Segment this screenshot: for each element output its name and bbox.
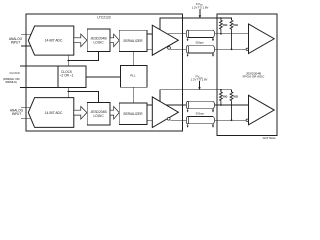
junction dot R1 signal1 [220,33,222,35]
wire serializer to driver - (bottom) [147,119,152,121]
wire driver - output to FPGA (bottom lane signal 4) [170,119,248,121]
box JESD204B LOGIC (top) [87,29,110,51]
resistor R4 50 ohm (bottom lane) [230,92,233,120]
resistor R1 50 ohm (top lane) [220,18,223,34]
svg-text:1.2V TO 1.8V: 1.2V TO 1.8V [191,78,208,82]
receiver RX1 (top triangle in FPGA) [249,24,275,54]
wire clock + [20,65,58,67]
box SERIALIZER (bottom) [119,103,147,124]
svg-text:SERIALIZER: SERIALIZER [123,39,143,43]
svg-text:LOGIC: LOGIC [93,40,104,44]
junction dot rail R1 [220,17,222,19]
block arrow logic to serializer (bottom) [110,106,119,119]
svg-text:PLL: PLL [130,74,136,78]
box PLL [121,65,148,87]
wire driver tap to termination rail (top) [160,18,232,30]
wire PLL to serializer2 [133,87,135,103]
CML driver A (top triangle) [152,25,178,55]
svg-text:÷2 OR ÷1: ÷2 OR ÷1 [60,73,74,77]
block arrow logic to serializer (top) [110,34,119,47]
box SERIALIZER (top) [119,30,147,51]
wire analog input - (top) [21,45,31,47]
svg-text:CLOCK: CLOCK [10,71,20,75]
svg-text:50Ω: 50Ω [233,96,238,99]
junction dot rail R3 [220,89,222,91]
junction dot clock net top [67,60,69,62]
svg-text:50Ω: 50Ω [223,96,228,99]
wire clock net to top ADC and logic [67,55,69,66]
svg-text:50Ω: 50Ω [223,24,228,27]
svg-text:LTC2123: LTC2123 [97,15,110,19]
resistor R3 50 ohm (bottom lane) [220,90,223,105]
svg-text:3Gbps: 3Gbps [195,41,204,45]
svg-text:1.2V TO 1.8V: 1.2V TO 1.8V [192,5,209,9]
wire driver tap to termination rail (bottom) [160,90,232,102]
junction dot R3 signal3 [220,104,222,106]
transmission line TL3 (bottom lane upper) [186,101,214,112]
wire driver + output to FPGA (top lane signal 1) [167,33,248,35]
wire clock to PLL [86,76,121,78]
wire serializer1 to PLL [133,52,135,66]
svg-text:500MHz): 500MHz) [5,80,17,84]
supply arrow FVDD (top) [199,9,201,16]
wire clock net to bottom ADC and logic [67,87,69,97]
ADC A1 14-BIT ADC (top) [28,26,74,55]
FPGA box JESD204B FPGA OR ASIC [217,14,277,135]
receiver RX2 (bottom triangle in FPGA) [249,95,275,125]
junction dot R4 signal4 [231,119,233,121]
junction dot R2 signal2 [231,48,233,50]
supply arrow FVDD (bottom) [199,81,201,87]
box JESD204B LOGIC (bottom) [87,103,110,126]
CML driver B (bottom triangle) [152,97,178,128]
block arrow ADC to JESD204B logic (top) [74,34,87,47]
ADC A2 14-BIT ADC (bottom) [28,98,74,128]
wire serializer to driver - (top) [147,48,152,50]
wire serializer to driver + (top) [147,33,152,35]
svg-text:FPGA OR ASIC: FPGA OR ASIC [243,75,265,79]
svg-text:INPUT: INPUT [12,112,22,116]
chip box U1 LTC2123 [26,14,183,131]
svg-text:2123 TA01a: 2123 TA01a [263,137,276,140]
svg-text:50Ω: 50Ω [233,24,238,27]
wire serializer to driver + (bottom) [147,104,152,106]
wire driver + output to FPGA (bottom lane signal 3) [166,104,248,106]
bubble inverting input RX2 [246,119,248,121]
wire analog input - (bottom) [21,117,31,119]
transmission line TL4 (bottom lane lower) [186,117,214,128]
svg-text:3Gbps: 3Gbps [196,111,205,115]
transmission line TL1 (top lane upper, 3Gbps) [186,30,214,41]
svg-text:LOGIC: LOGIC [93,114,104,118]
svg-text:14-BIT ADC: 14-BIT ADC [45,39,63,43]
wire analog input + (bottom) [21,106,31,108]
bubble inverting output driver B [167,117,170,120]
svg-text:SERIALIZER: SERIALIZER [123,112,143,116]
bubble inverting output driver A [168,47,171,50]
wire clock - [20,86,58,88]
svg-text:14-BIT ADC: 14-BIT ADC [45,111,63,115]
bubble inverting input RX1 [246,48,248,50]
wire analog input + (top) [21,33,31,35]
resistor R2 50 ohm (top lane) [230,20,233,49]
junction dot clock net bottom [67,91,69,93]
box CLOCK divider [58,66,86,87]
wire driver - output to FPGA (top lane signal 2) [170,48,248,50]
transmission line TL2 (top lane lower) [186,46,214,57]
block arrow ADC to logic (bottom) [74,106,87,119]
svg-text:INPUT: INPUT [11,41,21,45]
